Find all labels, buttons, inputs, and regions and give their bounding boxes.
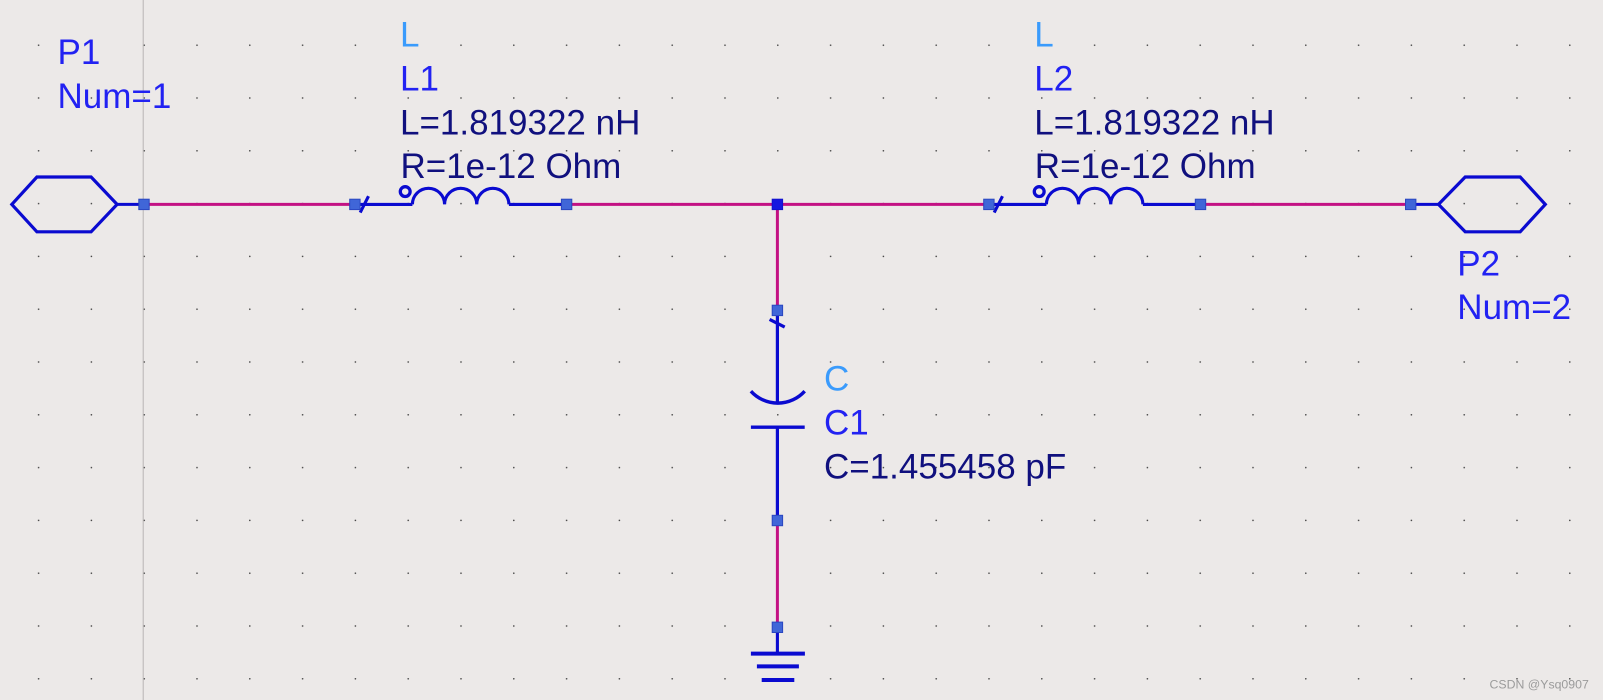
inductor L1 bbox=[360, 187, 561, 213]
svg-text:L2: L2 bbox=[1034, 60, 1073, 99]
ground bbox=[751, 627, 805, 680]
wire L2 to P2 bbox=[1201, 203, 1411, 206]
node C1 pin 1 bbox=[772, 305, 782, 315]
svg-text:L: L bbox=[400, 16, 419, 55]
svg-text:L: L bbox=[1034, 16, 1053, 55]
page margin line bbox=[142, 0, 144, 700]
port P1 bbox=[12, 177, 139, 232]
svg-text:P1: P1 bbox=[58, 33, 101, 72]
svg-text:P2: P2 bbox=[1457, 244, 1500, 283]
node P2 pin bbox=[1406, 199, 1416, 209]
node L2 pin 2 bbox=[1195, 199, 1205, 209]
svg-text:C1: C1 bbox=[824, 404, 869, 443]
svg-text:R=1e-12 Ohm: R=1e-12 Ohm bbox=[401, 147, 622, 186]
wire C1 bottom to ground bbox=[776, 521, 779, 628]
node P1 pin bbox=[139, 199, 149, 209]
svg-text:Num=2: Num=2 bbox=[1457, 288, 1571, 327]
node L1 pin 1 bbox=[350, 199, 360, 209]
svg-text:L1: L1 bbox=[400, 60, 439, 99]
svg-text:C=1.455458 pF: C=1.455458 pF bbox=[824, 447, 1066, 486]
inductor L2 bbox=[994, 187, 1195, 213]
wire node N1 to L2 bbox=[777, 203, 989, 206]
node L1 pin 2 bbox=[561, 199, 571, 209]
wire L1 to node N1 bbox=[567, 203, 778, 206]
svg-text:Num=1: Num=1 bbox=[58, 77, 172, 116]
capacitor C1 bbox=[751, 315, 805, 521]
node ground pin bbox=[772, 622, 782, 632]
node L2 pin 1 bbox=[984, 199, 994, 209]
node C1 pin 2 bbox=[772, 515, 782, 525]
wire node N1 to C1 top bbox=[776, 204, 779, 310]
node N1 junction bbox=[772, 199, 782, 209]
wire P1 to L1 bbox=[144, 203, 355, 206]
port P2 bbox=[1416, 177, 1545, 232]
svg-text:L=1.819322 nH: L=1.819322 nH bbox=[400, 103, 640, 142]
svg-text:R=1e-12 Ohm: R=1e-12 Ohm bbox=[1035, 147, 1256, 186]
svg-text:CSDN @Ysq0907: CSDN @Ysq0907 bbox=[1490, 678, 1589, 692]
svg-text:L=1.819322 nH: L=1.819322 nH bbox=[1034, 103, 1274, 142]
svg-text:C: C bbox=[824, 359, 849, 398]
